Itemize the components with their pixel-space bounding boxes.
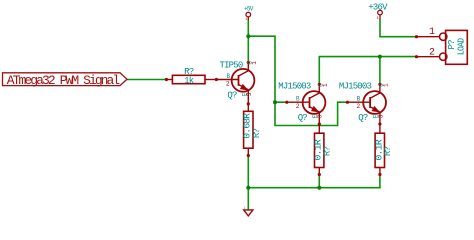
svg-text:1k: 1k	[184, 76, 194, 86]
svg-text:R?: R?	[322, 147, 332, 157]
svg-text:Q?: Q?	[227, 91, 237, 101]
svg-text:LOAD: LOAD	[456, 38, 466, 55]
svg-text:TIP50: TIP50	[219, 61, 242, 71]
svg-text:R?: R?	[383, 147, 393, 157]
svg-text:Q?: Q?	[358, 113, 368, 123]
svg-text:MJ15003: MJ15003	[278, 81, 311, 91]
svg-text:+5V: +5V	[244, 6, 254, 13]
svg-text:+36V: +36V	[368, 3, 388, 13]
svg-text:ATmega32 PWM Signal: ATmega32 PWM Signal	[7, 73, 121, 88]
svg-text:Q?: Q?	[298, 113, 308, 123]
svg-text:MJ15003: MJ15003	[339, 81, 372, 91]
svg-text:R?: R?	[252, 129, 262, 139]
